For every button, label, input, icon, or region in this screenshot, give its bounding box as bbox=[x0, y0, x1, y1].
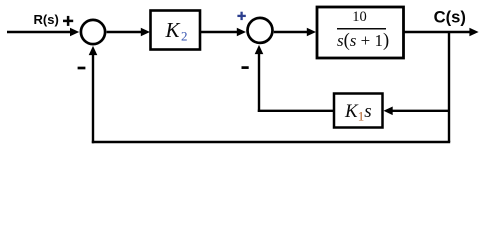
wire K2 to summer 2 bbox=[201, 28, 247, 37]
svg-text:C(s): C(s) bbox=[434, 8, 466, 27]
sign minus at summer 1 bbox=[78, 67, 86, 70]
svg-text:R(s): R(s) bbox=[34, 12, 59, 27]
wire outer feedback bottom bbox=[92, 141, 450, 143]
svg-text:K2: K2 bbox=[165, 18, 188, 44]
wire K1s output to summer 2 (horizontal) bbox=[258, 110, 334, 112]
sign + at summer 2 bbox=[237, 12, 245, 20]
wire summer 2 to plant block bbox=[274, 28, 316, 37]
svg-text:s(s + 1): s(s + 1) bbox=[337, 31, 389, 51]
svg-text:10: 10 bbox=[352, 9, 367, 25]
fraction bar bbox=[337, 28, 386, 30]
wire outer feedback up into summer 1 bbox=[89, 46, 98, 143]
summing junction 2 bbox=[248, 18, 273, 43]
wire summer 1 to K2 bbox=[107, 28, 150, 37]
block K2 bbox=[151, 11, 201, 50]
summing junction 1 bbox=[81, 20, 105, 44]
sign minus at summer 2 bbox=[242, 66, 249, 69]
sign + at summer 1 bbox=[63, 16, 73, 26]
wire plant to output C(s) bbox=[404, 28, 479, 37]
svg-text:K1s: K1s bbox=[344, 101, 372, 124]
wire K1s feedback up into summer 2 bbox=[255, 45, 264, 112]
wire input R(s) to summer 1 bbox=[7, 28, 79, 37]
node output tap junction bbox=[448, 32, 450, 142]
wire inner feedback into K1s block bbox=[384, 107, 450, 116]
block K1s bbox=[334, 94, 383, 128]
block plant 10/s(s+1) bbox=[317, 7, 404, 58]
